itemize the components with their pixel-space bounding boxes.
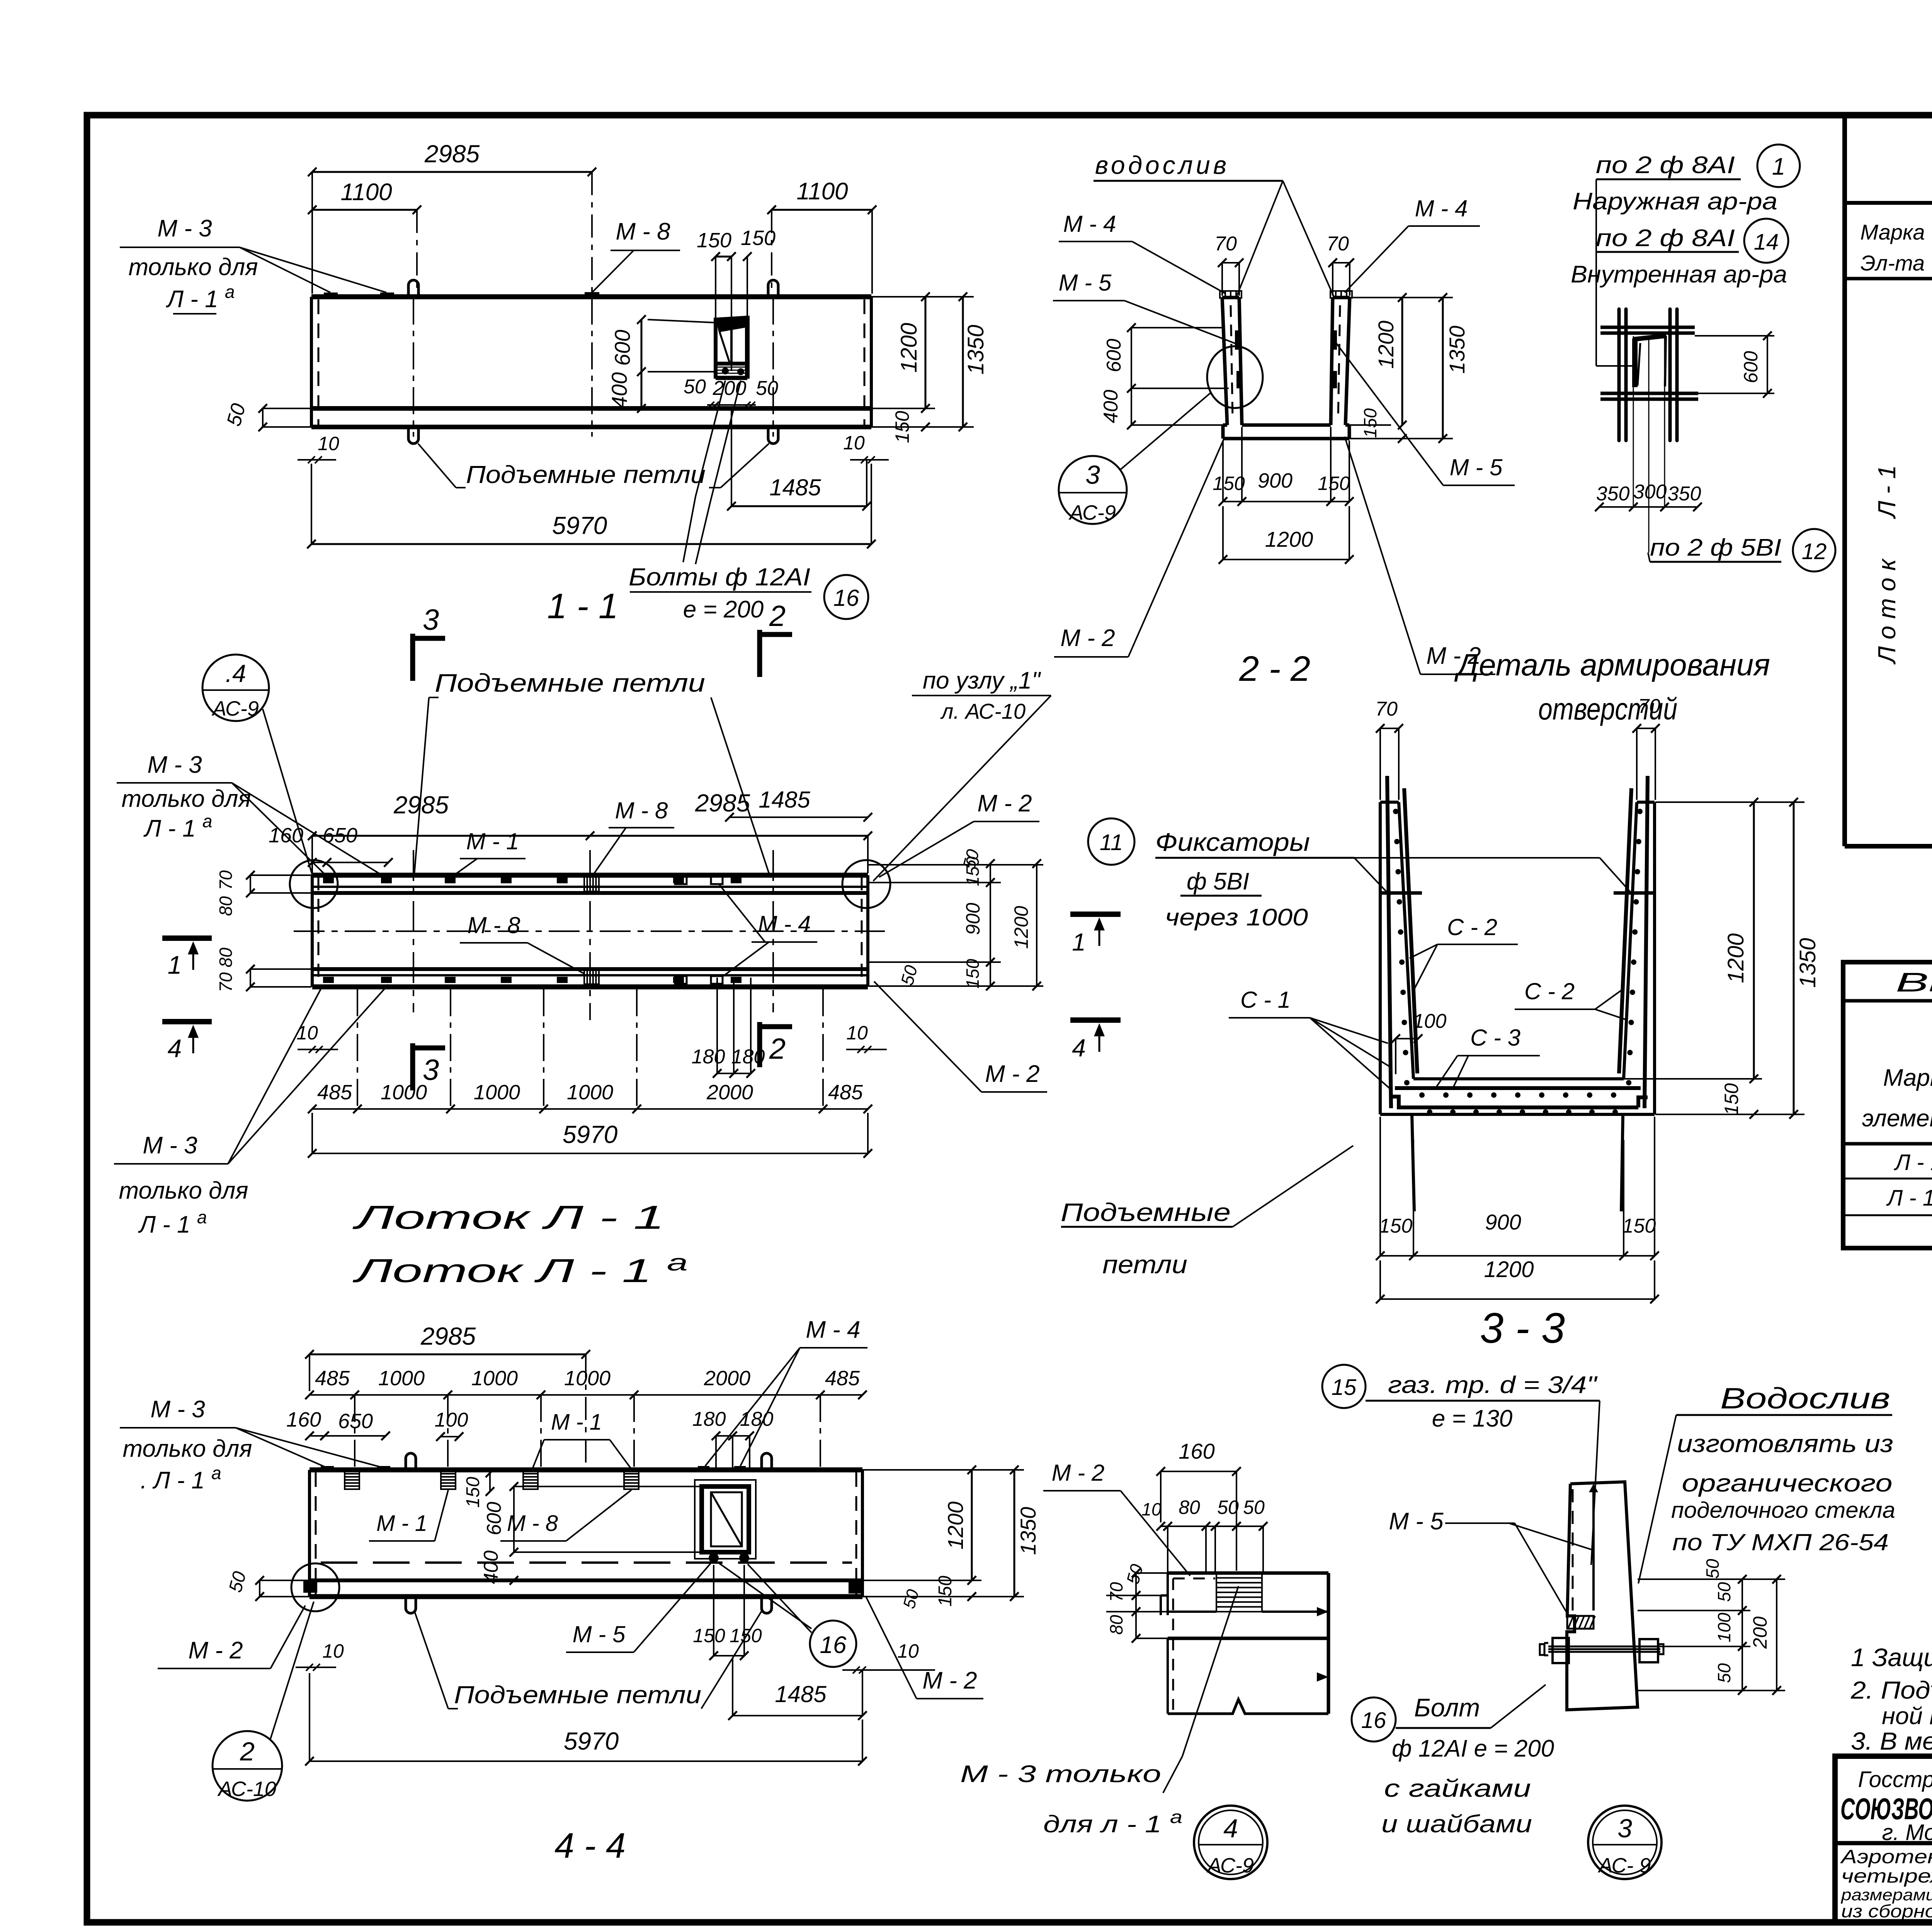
bolt detail: wall element outline: [1567, 1482, 1638, 1710]
section 4-4: hidden lines dashed: [316, 1472, 856, 1595]
section 3-3: right dims 1200 1350 150: [1624, 798, 1820, 1119]
section 2-2: label М-4 left: [1059, 211, 1226, 294]
svg-text:.4: .4: [225, 660, 246, 687]
svg-text:70: 70: [1106, 1582, 1126, 1602]
svg-text:Подъемные петли: Подъемные петли: [435, 668, 705, 697]
svg-text:Марка: Марка: [1860, 220, 1925, 244]
svg-text:150: 150: [741, 226, 776, 250]
svg-text:4: 4: [168, 1034, 182, 1063]
section 4-4: labels М-1 М-8 inside: [369, 1490, 631, 1541]
note 2 line 1: [1850, 1676, 1932, 1704]
svg-text:С - 2: С - 2: [1524, 978, 1575, 1004]
svg-text:1485: 1485: [775, 1681, 827, 1707]
section 1-1: dimension 50 200 50 below hole: [684, 376, 778, 408]
svg-text:М - 3: М - 3: [157, 215, 212, 242]
svg-text:М - 3: М - 3: [147, 752, 202, 778]
plan view: dimension 160 650: [269, 824, 393, 867]
svg-text:350: 350: [1668, 483, 1701, 505]
plan view: label по узлу 1 л.АС-10: [873, 667, 1051, 881]
svg-text:С - 1: С - 1: [1240, 987, 1291, 1013]
svg-text:М - 5: М - 5: [1059, 270, 1112, 296]
svg-text:Л - 1 а: Л - 1 а: [143, 811, 213, 842]
section 1-1: title: [547, 587, 618, 626]
svg-text:только для: только для: [122, 786, 251, 812]
section 2-2: label водослив with V leader: [1094, 151, 1334, 297]
svg-text:АС- 9: АС- 9: [1598, 1854, 1651, 1877]
svg-text:4: 4: [1072, 1034, 1086, 1062]
svg-text:Болты ф 12АI: Болты ф 12АI: [629, 563, 810, 591]
svg-text:10: 10: [843, 432, 865, 454]
plan view: label М-4 middle right: [719, 885, 817, 976]
section 2-2: title: [1239, 649, 1310, 689]
svg-text:М - 2: М - 2: [1060, 625, 1115, 651]
section 2-2: right wall: [1331, 298, 1350, 425]
detail: dim 600 right: [1695, 332, 1774, 398]
note 1: [1851, 1643, 1932, 1672]
section 1-1: label М-8 with leader: [592, 218, 680, 293]
svg-text:1485: 1485: [759, 787, 810, 813]
svg-text:150: 150: [963, 856, 983, 886]
svg-text:М - 2: М - 2: [985, 1061, 1039, 1087]
title block frame: [1835, 1756, 1932, 1922]
svg-text:1350: 1350: [1795, 938, 1820, 988]
svg-text:150: 150: [1318, 473, 1350, 494]
plan view: dimension 5970: [308, 1113, 872, 1158]
section 2-2: 70 dims above walls: [1214, 233, 1354, 296]
note 3: [1851, 1727, 1932, 1755]
section 4-4: М-1 hatched anchor marks: [345, 1471, 639, 1489]
plan view: title Лоток Л-1а: [352, 1250, 688, 1289]
plan view: right rotated dims 50 150 900 1200 150 50: [868, 847, 1043, 990]
svg-text:1 - 1: 1 - 1: [547, 587, 618, 626]
section 3-3: dim 100: [1391, 1010, 1447, 1074]
section 4-4: label М-2 left with detail circle: [158, 1563, 339, 1668]
plan view: section flag 3 bottom: [413, 1043, 445, 1090]
svg-text:М - 8: М - 8: [615, 798, 668, 823]
svg-text:М - 4: М - 4: [806, 1316, 860, 1343]
plan view: outline: [312, 875, 868, 987]
plan view: section flag 1 left: [162, 938, 212, 979]
plan view: centerlines dash-dot: [294, 850, 885, 1020]
svg-text:газ. тр. d = 3/4": газ. тр. d = 3/4": [1388, 1372, 1598, 1398]
svg-text:Выборка стали на 1 элеме: Выборка стали на 1 элемент: [1896, 967, 1932, 997]
section 1-1: centerlines dash-dot through beam: [413, 298, 773, 437]
table title: Выборка стали на 1 элемент: [1896, 967, 1932, 997]
svg-text:1000: 1000: [381, 1081, 427, 1104]
svg-text:ф 12АI е = 200: ф 12АI е = 200: [1392, 1735, 1554, 1762]
detail: witness lines to 350 dim: [1633, 336, 1665, 553]
section 3-3: label Подъемные петли: [1061, 1146, 1353, 1279]
detail М-2: label М-2 with leader: [1043, 1460, 1190, 1576]
svg-text:Подъемные петли: Подъемные петли: [454, 1681, 701, 1709]
svg-text:Эл-та: Эл-та: [1861, 251, 1925, 275]
plan view: dimension 1485 top right: [725, 787, 872, 821]
svg-text:400: 400: [1100, 390, 1122, 423]
plan view: label М-2 top right: [879, 790, 1039, 877]
svg-text:г. Москва: г. Москва: [1882, 1820, 1932, 1845]
svg-text:160: 160: [286, 1408, 321, 1431]
section 4-4: М-4 marks at hole: [698, 1466, 746, 1471]
section 3-3: label C-2 right: [1515, 978, 1628, 1020]
svg-text:10: 10: [897, 1640, 919, 1662]
svg-text:80: 80: [216, 947, 236, 968]
svg-text:4 - 4: 4 - 4: [554, 1826, 626, 1866]
svg-text:М - 1: М - 1: [466, 828, 519, 854]
section 4-4: label Подъемные петли: [414, 1611, 762, 1709]
svg-text:1200: 1200: [1723, 933, 1748, 983]
bolt detail: circle 15 газ.тр. label: [1322, 1365, 1600, 1565]
svg-text:1000: 1000: [567, 1081, 613, 1104]
section 1-1: dimension 2985: [308, 140, 596, 294]
svg-text:Аэротенки-смесители: Аэротенки-смесители: [1840, 1846, 1932, 1867]
bolt detail: М-5 label with leaders: [1389, 1508, 1591, 1617]
section 1-1: М-8 embedded mark: [585, 292, 599, 298]
section 4-4: dims 150 left and 600 400: [463, 1469, 702, 1585]
plan view: embedded marks top band: [323, 876, 742, 891]
section 2-2: label М-2 left: [1054, 437, 1225, 657]
section 1-1: dimension 1100 right: [767, 178, 876, 294]
svg-text:70: 70: [1327, 233, 1349, 255]
svg-text:Фиксаторы: Фиксаторы: [1155, 828, 1310, 856]
svg-text:485: 485: [828, 1081, 863, 1104]
svg-text:только для: только для: [129, 254, 258, 281]
bolt detail: circle 16 Болт label: [1352, 1685, 1554, 1838]
detail: rebar grid drawing: [1600, 309, 1698, 440]
svg-text:М - 2: М - 2: [977, 790, 1032, 817]
svg-text:2. Подъем лотка за Верхние: 2. Подъем лотка за Верхние петли осущест…: [1850, 1676, 1932, 1704]
svg-text:по 2 ф 8АI: по 2 ф 8АI: [1596, 152, 1735, 179]
svg-text:50: 50: [756, 377, 778, 400]
svg-text:150: 150: [463, 1477, 483, 1508]
svg-text:по ТУ МХП 26-54: по ТУ МХП 26-54: [1672, 1529, 1889, 1555]
svg-text:С - 3: С - 3: [1470, 1025, 1520, 1051]
section 4-4: right side dims 1200 1350 150 50: [862, 1466, 1040, 1611]
svg-text:Марка: Марка: [1883, 1065, 1932, 1091]
svg-text:М - 2: М - 2: [188, 1637, 243, 1664]
svg-text:Л - 1 а: Л - 1 а: [138, 1207, 207, 1238]
svg-text:1000: 1000: [378, 1367, 425, 1390]
section 4-4: label М-5 with leader: [566, 1563, 711, 1652]
section 1-1: drain hole detail: [716, 316, 747, 379]
svg-text:100: 100: [1714, 1612, 1734, 1642]
svg-text:АС-9: АС-9: [1206, 1854, 1254, 1877]
section cut marker 3 below 1-1: [413, 604, 445, 681]
svg-text:Лоток Л - 1 а: Лоток Л - 1 а: [352, 1250, 688, 1289]
svg-text:1200: 1200: [943, 1502, 968, 1550]
svg-text:900: 900: [1485, 1210, 1521, 1234]
svg-text:80: 80: [1179, 1497, 1200, 1518]
svg-text:1200: 1200: [1010, 906, 1032, 949]
svg-text:3: 3: [1085, 460, 1100, 490]
section 2-2: М-4 caps on wall tops: [1220, 291, 1352, 298]
section 2-2: label М-5 right: [1334, 340, 1515, 485]
svg-text:М - 5: М - 5: [1389, 1508, 1444, 1535]
section 2-2: circle 3 АС-9 with leader: [1059, 392, 1211, 524]
bolt detail: vodosliv glass plate hatched: [1567, 1616, 1595, 1629]
svg-text:Л - 1: Л - 1: [1893, 1150, 1932, 1175]
svg-text:М - 2: М - 2: [1052, 1460, 1105, 1486]
svg-text:10: 10: [846, 1022, 868, 1044]
svg-text:2: 2: [240, 1737, 255, 1766]
section 1-1: left 50 dimension: [223, 401, 311, 431]
svg-text:элемента: элемента: [1862, 1105, 1932, 1132]
detail М-2: left dims 50 70 80: [1106, 1562, 1168, 1643]
svg-text:ф 5ВI: ф 5ВI: [1187, 868, 1249, 895]
svg-text:100: 100: [1413, 1010, 1447, 1032]
section 4-4: drain hole detail with dashed frame: [695, 1480, 756, 1563]
section 2-2: dim 1200 bottom: [1219, 506, 1354, 564]
svg-text:200: 200: [1749, 1616, 1771, 1649]
section 1-1: dimension 1485: [727, 410, 871, 510]
svg-text:400: 400: [480, 1551, 502, 1584]
plan view: label Подъемные петли: [414, 668, 769, 875]
section 4-4: label М-4 with leaders: [705, 1316, 867, 1466]
detail: title Деталь армирования отверстий: [1454, 648, 1770, 726]
svg-text:2 - 2: 2 - 2: [1239, 649, 1310, 689]
title block: Госстрой СССР cell: [1840, 1765, 1932, 1845]
detail: label Наружная ар-ра: [1573, 188, 1777, 215]
title block: Аэротенки-смесители text: [1840, 1846, 1932, 1921]
svg-text:М - 2: М - 2: [922, 1667, 977, 1694]
svg-text:4: 4: [1223, 1814, 1238, 1843]
svg-text:Л - 1 а: Л - 1 а: [1886, 1182, 1932, 1211]
section 1-1: right side dimensions 1200 1350 150: [871, 293, 988, 443]
section 4-4: dimension 5970: [305, 1673, 867, 1765]
svg-text:1350: 1350: [1445, 326, 1469, 374]
svg-text:150: 150: [963, 959, 983, 988]
section 2-2: left wall: [1222, 298, 1242, 425]
svg-text:11: 11: [1100, 830, 1123, 855]
table data: Л-1 row: [1893, 1148, 1932, 1175]
svg-text:160: 160: [1179, 1439, 1214, 1463]
svg-text:Подъемные: Подъемные: [1061, 1198, 1231, 1226]
svg-text:150: 150: [1360, 408, 1380, 438]
svg-text:2: 2: [769, 600, 786, 633]
detail: label по 2ф8АI with circle 1: [1596, 145, 1800, 252]
detail М-2: dims 10 80 50 50: [1141, 1497, 1267, 1573]
section 1-1: М-3 embedded marks: [324, 293, 394, 298]
svg-text:Л о т о к Л - 1: Л о т о к Л - 1: [1873, 465, 1901, 665]
svg-text:Л - 1 а: Л - 1 а: [166, 282, 235, 313]
svg-text:1350: 1350: [963, 325, 988, 374]
svg-text:15: 15: [1332, 1375, 1357, 1400]
section 3-3: section flag 4 left: [1070, 1020, 1121, 1062]
plan view: section flag 2 bottom: [760, 1022, 792, 1067]
section 4-4: label М-1 upper with leader: [532, 1410, 633, 1471]
svg-text:по 2 ф 5ВI: по 2 ф 5ВI: [1650, 534, 1781, 561]
svg-text:Госстрой: Госстрой: [1858, 1767, 1932, 1792]
svg-text:50: 50: [1702, 1559, 1723, 1579]
plan view: label М-8 middle: [460, 912, 584, 974]
plan view: label М-1 top: [451, 828, 526, 877]
table header: Марка элемента: [1862, 1065, 1932, 1132]
svg-text:485: 485: [825, 1367, 860, 1390]
svg-text:180: 180: [692, 1046, 725, 1068]
svg-text:е = 200: е = 200: [683, 596, 764, 623]
svg-text:М - 5: М - 5: [1450, 454, 1503, 480]
section 2-2: right dims 1200 1350 150: [1345, 293, 1469, 443]
plan view: embedded marks bottom band: [323, 969, 742, 984]
table data: Л-1а row: [1886, 1182, 1932, 1211]
bolt detail: bolt assembly with nuts: [1540, 1638, 1663, 1663]
section 2-2: label М-5 left: [1053, 270, 1236, 344]
svg-text:70: 70: [1638, 695, 1660, 718]
svg-text:70: 70: [216, 870, 236, 890]
svg-text:Деталь армирования: Деталь армирования: [1454, 648, 1770, 682]
svg-text:50: 50: [1243, 1497, 1265, 1518]
section 2-2: dims 150 900 150 bottom: [1213, 427, 1354, 506]
table: Выборка стали на 1 элемент — frame: [1843, 962, 1932, 1248]
svg-text:200: 200: [713, 377, 747, 400]
svg-text:с гайками: с гайками: [1384, 1774, 1531, 1802]
detail: label внутренная ар-ра: [1571, 261, 1787, 288]
svg-text:600: 600: [1103, 339, 1125, 372]
svg-text:10: 10: [322, 1640, 344, 1662]
section 3-3: section flag 1 left: [1070, 914, 1121, 956]
section 3-3: concrete outline: [1380, 802, 1655, 1114]
svg-text:2985: 2985: [420, 1322, 476, 1350]
svg-text:1200: 1200: [1484, 1257, 1534, 1282]
section 2-2: label М-2 right: [1345, 437, 1495, 674]
section 2-2: detail circle at left wall base: [1207, 346, 1263, 408]
svg-text:Болт: Болт: [1414, 1693, 1480, 1722]
note 2 line 2: [1882, 1703, 1932, 1730]
svg-text:50: 50: [684, 376, 706, 398]
section 1-1: dimension 150 150 above hole: [697, 226, 776, 371]
svg-text:3: 3: [423, 604, 439, 636]
svg-text:2985: 2985: [424, 140, 480, 168]
table rotated group label Лоток Л-1: [1873, 465, 1901, 665]
section 3-3: 70 dims at wall tops: [1375, 695, 1660, 800]
svg-text:М - 3: М - 3: [143, 1132, 197, 1159]
section 4-4: 10 dims: [296, 1640, 935, 1673]
table: Выборка арматурных и закладных изделий — frame: [1845, 115, 1932, 846]
svg-text:М - 8: М - 8: [616, 218, 670, 245]
svg-text:1200: 1200: [896, 323, 922, 372]
section 3-3: rebar C-1 C-2 bars with dots: [1380, 776, 1655, 1108]
section 3-3: slab rebar C-3: [1389, 1088, 1648, 1115]
svg-text:70: 70: [1214, 233, 1237, 255]
plan view: label М-3 только для Л-1а (top left): [117, 752, 386, 878]
svg-text:100: 100: [435, 1409, 468, 1431]
svg-text:10: 10: [296, 1022, 318, 1044]
svg-text:Внутренная ар-ра: Внутренная ар-ра: [1571, 261, 1787, 288]
svg-text:1485: 1485: [769, 474, 821, 500]
plan view: left rotated dims 70 80 / 80 70: [216, 870, 311, 992]
svg-text:1 Защитный слой бетона - 20: 1 Защитный слой бетона - 20 мм.: [1851, 1643, 1932, 1672]
section 4-4: label М-2 right with mark: [849, 1581, 983, 1699]
svg-text:350: 350: [1596, 483, 1630, 505]
plan view: bottom chain dimension 485 1000 1000 1000 2000 485: [308, 989, 872, 1113]
svg-text:Водослив: Водослив: [1720, 1382, 1890, 1415]
svg-text:300: 300: [1633, 481, 1667, 503]
svg-text:3. В местах отверстий армату: 3. В местах отверстий арматуру сеток обр…: [1851, 1727, 1932, 1755]
svg-text:600: 600: [610, 330, 634, 366]
svg-text:150: 150: [1721, 1083, 1742, 1116]
section 3-3: dim 1200 bottom: [1376, 1257, 1659, 1303]
section 2-2: label М-4 right: [1345, 196, 1480, 293]
svg-text:50: 50: [1714, 1663, 1734, 1683]
svg-text:650: 650: [323, 824, 357, 847]
section 4-4: dimension 1485: [728, 1658, 867, 1720]
circle 3 АС-9 bottom: [1588, 1806, 1662, 1879]
section 4-4: dimension 2985 top: [305, 1322, 590, 1468]
svg-text:900: 900: [962, 903, 984, 935]
svg-text:10: 10: [318, 433, 339, 454]
svg-text:М - 5: М - 5: [573, 1621, 626, 1647]
svg-text:16: 16: [820, 1632, 847, 1658]
plan view: detail circle 4 АС-9 top left: [202, 655, 313, 877]
plan view: label М-2 bottom right: [874, 981, 1047, 1092]
svg-text:1000: 1000: [474, 1081, 520, 1104]
svg-text:по 2 ф 8АI: по 2 ф 8АI: [1596, 225, 1735, 252]
svg-text:1: 1: [1772, 153, 1785, 180]
plan view: title Лоток Л-1: [352, 1199, 665, 1236]
svg-text:16: 16: [833, 585, 859, 611]
bolt detail: text изготовлять из органического поделочного стекла: [1671, 1430, 1895, 1555]
svg-text:16: 16: [1361, 1708, 1386, 1733]
section 4-4: dims 150 150 at bolts: [693, 1565, 762, 1660]
svg-text:1200: 1200: [1374, 321, 1398, 369]
section 3-3: bottom dims 150 900 150: [1376, 1117, 1659, 1260]
svg-text:М - 3: М - 3: [150, 1396, 205, 1423]
section 4-4: circle 16 with leaders: [719, 1563, 856, 1667]
section 4-4: М-3 marks on top edge: [321, 1466, 390, 1471]
svg-text:только для: только для: [119, 1177, 248, 1204]
svg-text:Подъемные петли: Подъемные петли: [466, 461, 706, 488]
bolt detail: right dims 50 50 100 50 200: [1638, 1559, 1785, 1695]
svg-text:150: 150: [693, 1625, 725, 1646]
svg-text:2000: 2000: [706, 1081, 753, 1104]
section 1-1: dimension 1100 left: [308, 179, 421, 294]
detail: dims 350 300 350: [1595, 481, 1702, 511]
svg-text:четырехкоридорные с: четырехкоридорные с: [1841, 1865, 1932, 1887]
svg-text:180: 180: [692, 1408, 726, 1430]
svg-text:10: 10: [1141, 1499, 1162, 1519]
section 1-1: label Болты ф12АI е=200 with leader and circle 16: [629, 381, 868, 623]
svg-text:150: 150: [697, 229, 731, 252]
plan view: label М-8 top: [592, 798, 674, 876]
detail М-2: corner drawing with hatched plate: [1161, 1573, 1328, 1714]
section 4-4: dims 160 650 100 180 180: [286, 1408, 774, 1468]
svg-text:М - 4: М - 4: [1063, 211, 1116, 237]
section 3-3: label C-2 left: [1410, 914, 1518, 989]
svg-text:М - 8: М - 8: [468, 912, 520, 938]
detail М-2: dim 160: [1156, 1439, 1241, 1571]
section 2-2: dims 600 400 left: [1100, 323, 1229, 429]
svg-text:М - 1: М - 1: [376, 1511, 427, 1536]
svg-text:1100: 1100: [796, 178, 848, 205]
svg-text:ной траверсой, не допуская пер: ной траверсой, не допуская передачи расп…: [1882, 1703, 1932, 1730]
svg-text:5970: 5970: [552, 512, 607, 539]
svg-text:1000: 1000: [471, 1367, 518, 1390]
section 1-1: dimension 600 400 left of hole: [607, 315, 716, 413]
section 1-1: 10 dimensions at ends: [298, 432, 889, 463]
svg-text:50: 50: [1217, 1497, 1239, 1518]
section 2-2: bottom slab: [1223, 425, 1349, 439]
svg-text:из сборного железобетона: из сборного железобетона: [1841, 1901, 1932, 1921]
plan view: end detail circles: [290, 860, 890, 908]
svg-text:. Л - 1 а: . Л - 1 а: [140, 1463, 221, 1494]
svg-text:150: 150: [730, 1625, 762, 1646]
svg-text:для л - 1 а: для л - 1 а: [1043, 1807, 1182, 1838]
svg-text:петли: петли: [1102, 1250, 1187, 1279]
section 4-4: title: [554, 1826, 626, 1866]
section 2-2: М-5 marks inside walls: [1235, 330, 1337, 388]
section cut marker 2 below 1-1: [760, 600, 792, 677]
plan view: bottom dims 10 180 180: [296, 978, 887, 1078]
plan view: section flag 4 left: [162, 1022, 212, 1063]
